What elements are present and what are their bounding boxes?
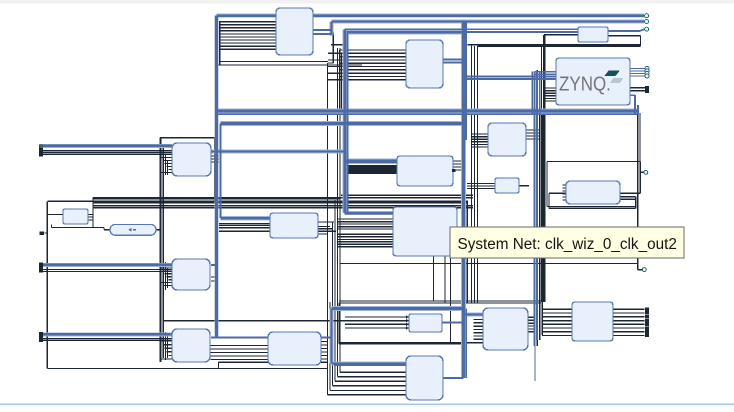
svg-text:System Net: clk_wiz_0_clk_out2: System Net: clk_wiz_0_clk_out2 bbox=[458, 236, 677, 253]
svg-text:ZYNQ.: ZYNQ. bbox=[559, 72, 611, 95]
